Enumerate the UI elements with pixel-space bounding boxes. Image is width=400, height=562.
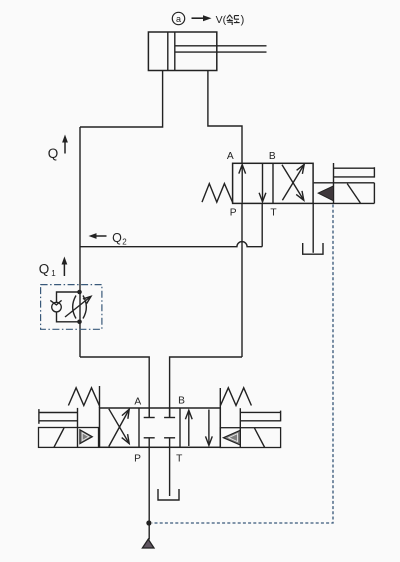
wire cylinder left port to main line — [80, 71, 163, 128]
cylinder rod — [175, 45, 267, 47]
wire main line down — [79, 127, 81, 357]
svg-text:T: T — [176, 454, 182, 465]
svg-text:2: 2 — [122, 238, 127, 247]
svg-text:B: B — [269, 151, 276, 162]
cylinder piston — [167, 32, 169, 71]
svg-text:Q: Q — [39, 262, 50, 277]
V2 centre position blocked ports — [148, 408, 150, 417]
cylinder body — [148, 32, 216, 71]
valve V2 body (4/3 solenoid valve) — [100, 408, 221, 447]
V2 left solenoid diagonal — [54, 428, 64, 447]
V2 right solenoid top bracket — [240, 411, 280, 413]
V1 left position P-A arrow — [241, 165, 243, 203]
wire cylinder right port to valve A — [208, 71, 242, 164]
svg-text:Q: Q — [48, 146, 59, 161]
svg-text:A: A — [134, 397, 141, 408]
wire V2 P to pressure source — [148, 438, 150, 540]
V1 pilot triangle (filled) — [318, 186, 333, 201]
svg-text:Q: Q — [112, 231, 122, 245]
svg-text:T: T — [270, 208, 276, 219]
check valve seat — [50, 300, 61, 305]
V2 left solenoid box — [39, 428, 99, 448]
wire V1-P to V2 port B — [170, 357, 242, 417]
flow control enclosure (dash-dot) — [41, 285, 102, 330]
svg-text:V(: V( — [216, 14, 227, 26]
V1 spring — [202, 184, 233, 203]
pilot line (dashed) — [152, 205, 333, 524]
arrow Q up — [64, 140, 66, 154]
node pilot takeoff — [146, 520, 151, 525]
V2 right pilot triangle (hatched) — [223, 430, 240, 445]
V1 left position B-T arrow — [262, 164, 264, 202]
V1 pilot box — [314, 182, 375, 184]
V1 right position crossed arrows — [282, 165, 304, 201]
wire Q2 line with hop over P wire — [80, 242, 262, 247]
label a (circled) — [172, 12, 184, 24]
V2 right solenoid diagonal — [254, 428, 264, 448]
tank T1 — [303, 243, 323, 254]
svg-text:a: a — [176, 14, 181, 24]
node bottom of flow control — [77, 320, 82, 325]
V2 right spring — [219, 388, 221, 408]
V2 left spring — [99, 386, 101, 408]
throttle adjust arrow — [65, 298, 90, 318]
svg-text:A: A — [227, 151, 234, 162]
check valve ball — [52, 302, 62, 312]
V2 right position straight arrows — [188, 411, 190, 446]
tank T2 — [158, 489, 179, 500]
V2 right solenoid box — [220, 428, 280, 448]
V2 left position crossed arrows — [109, 409, 129, 446]
V1 solenoid top bracket — [334, 167, 375, 169]
V1 solenoid diagonal — [347, 184, 360, 203]
speed arrow V — [192, 17, 206, 19]
svg-text:): ) — [241, 14, 245, 26]
wire V1 drain to tank — [312, 203, 314, 252]
arrow Q1 up — [63, 262, 65, 276]
svg-text:P: P — [230, 208, 237, 219]
svg-text:B: B — [178, 396, 185, 407]
throttle arcs — [73, 296, 76, 319]
wire V1 P down (with junction to manifold) — [241, 203, 243, 357]
check valve bypass wire — [57, 292, 80, 302]
svg-text:1: 1 — [51, 269, 56, 278]
svg-text:P: P — [134, 454, 141, 465]
node top of flow control — [77, 290, 82, 295]
V2 left pilot triangle (hatched) — [80, 430, 92, 444]
V2 left solenoid top bracket — [39, 412, 78, 414]
arrow Q2 left — [94, 235, 107, 237]
wire V1 T down — [261, 203, 263, 246]
wire V2 T to tank — [169, 438, 171, 496]
pressure source triangle — [142, 539, 154, 548]
manifold wire to V2 port A — [80, 357, 149, 417]
valve V1 body (4/2 solenoid valve) — [233, 163, 314, 203]
